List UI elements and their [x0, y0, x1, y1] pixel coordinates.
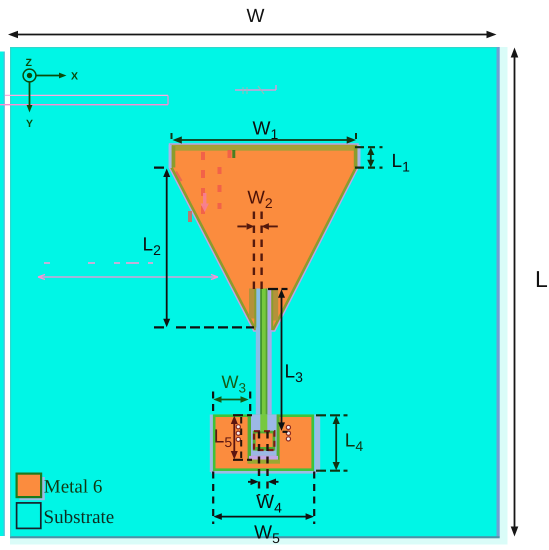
svg-text:L: L	[535, 266, 548, 292]
ground plane rectangle left lavender shadow	[210, 415, 213, 473]
ground plane rectangle right lavender shadow	[314, 415, 320, 473]
svg-text:X: X	[71, 71, 78, 83]
dimension L5 (maroon)	[214, 415, 252, 460]
dimension L1	[355, 147, 410, 174]
dimension W3	[213, 372, 250, 414]
ghost gray marks	[243, 86, 264, 94]
ground plane rectangle (Metal 6)	[214, 416, 313, 470]
ghost pink dimension arrow	[38, 275, 218, 280]
dimension W5	[213, 472, 314, 547]
ghost red dashes on triangle	[190, 150, 230, 222]
feed pad (orange, green outline)	[253, 431, 275, 451]
ghost pink line 1	[5, 94, 168, 96]
dimension L arrow (right)	[511, 48, 548, 537]
ghost green dash on triangle	[232, 150, 235, 158]
ghost pink diagonal at left corner	[176, 172, 182, 182]
ghost pink line 3	[235, 85, 276, 90]
legend substrate swatch	[17, 503, 41, 529]
ground plane rectangle bottom lavender shadow	[211, 471, 317, 474]
svg-text:Metal 6: Metal 6	[44, 477, 103, 498]
slot lavender edge	[270, 289, 272, 329]
ghost pink line 2	[0, 104, 168, 106]
ghost pink ticks row	[44, 262, 153, 264]
substrate square (cyan)	[10, 47, 500, 538]
patch triangle (Metal 6)	[169, 145, 361, 329]
ground notch slot (light blue)	[251, 414, 280, 456]
notch violet under-row	[249, 456, 278, 460]
svg-text:Substrate: Substrate	[44, 507, 115, 528]
notch olive under-row	[248, 460, 280, 464]
dimension W arrow	[8, 6, 497, 39]
dimension W4	[248, 432, 282, 516]
ghost pink tick vertical	[167, 95, 169, 104]
ghost pink arrow on triangle	[201, 193, 209, 212]
axis Y arrow	[26, 82, 33, 130]
via circles left	[236, 425, 240, 442]
dimension W2	[237, 187, 277, 291]
axis X arrow	[36, 71, 78, 83]
svg-text:Z: Z	[26, 57, 33, 69]
notch cut edges (green)	[255, 289, 272, 331]
dimension L2	[143, 168, 255, 328]
coordinate axes origin circle	[23, 69, 36, 82]
pad dashed outline (maroon)	[254, 431, 274, 450]
dimension L4	[316, 415, 363, 470]
svg-text:Y: Y	[26, 118, 33, 130]
dimension W1	[172, 119, 357, 144]
cpw slot (light blue) vertical	[256, 289, 260, 416]
notch left green lining	[248, 414, 251, 463]
notch right green lining	[277, 414, 280, 463]
feed line (green)	[260, 289, 267, 432]
legend metal6 swatch	[17, 474, 45, 501]
feed line end into pad	[260, 414, 267, 431]
svg-text:W: W	[247, 6, 265, 27]
dimension L3	[268, 289, 303, 432]
left cyan sliver strip	[0, 52, 5, 537]
via circles right	[286, 425, 290, 441]
